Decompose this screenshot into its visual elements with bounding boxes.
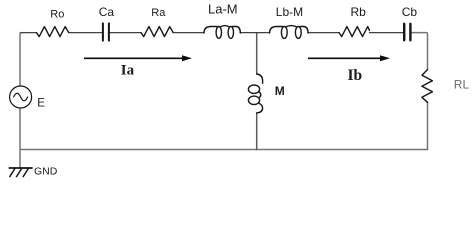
svg-text:RL: RL: [454, 77, 470, 91]
svg-text:Ia: Ia: [121, 63, 135, 79]
svg-text:GND: GND: [34, 166, 58, 178]
svg-text:Ib: Ib: [348, 67, 363, 84]
svg-text:La-M: La-M: [208, 2, 238, 17]
svg-text:Lb-M: Lb-M: [276, 5, 303, 19]
svg-text:M: M: [275, 84, 285, 98]
svg-text:Ra: Ra: [151, 7, 166, 19]
svg-text:Ca: Ca: [99, 5, 115, 19]
svg-text:Rb: Rb: [351, 5, 367, 19]
svg-text:Ro: Ro: [50, 9, 64, 21]
svg-text:Cb: Cb: [402, 5, 418, 19]
svg-text:E: E: [37, 98, 45, 110]
